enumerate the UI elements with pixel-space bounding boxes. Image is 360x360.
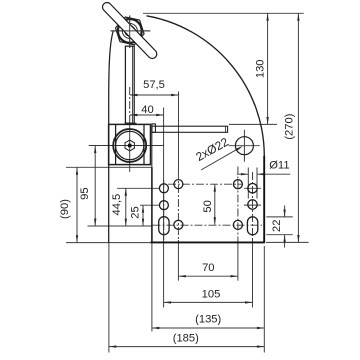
svg-text:130: 130	[254, 59, 266, 78]
dim (185) line	[109, 346, 264, 348]
dim 130 line	[267, 13, 269, 124]
arrowheads 50	[214, 184, 216, 191]
arrowheads (270)	[297, 13, 299, 20]
arrowheads 40	[130, 114, 137, 116]
svg-text:50: 50	[202, 200, 214, 212]
lever arm	[125, 46, 134, 123]
pivot block outline	[109, 124, 151, 164]
dim 105 line	[164, 301, 253, 303]
centreline col G-J	[252, 172, 254, 240]
hub outer circle	[118, 19, 142, 43]
pivot horizontal centreline	[89, 145, 164, 147]
arrowhead leader 2xO22	[236, 146, 243, 151]
arrowheads O11 outside	[241, 173, 248, 175]
flange bottom thin edge / (90) bottom tick	[66, 242, 151, 244]
dim O11 ext lines	[248, 168, 257, 199]
slot J	[247, 217, 257, 235]
hub centre ring	[125, 27, 134, 36]
arrowheads 44,5	[125, 188, 127, 195]
dim 22 ticks	[266, 217, 293, 235]
svg-text:95: 95	[79, 187, 91, 199]
pivot centre square	[128, 144, 132, 148]
pivot block inner jaw lines	[116, 124, 144, 164]
plate left edge upper segment	[151, 132, 153, 167]
extension line x=151.9 lower	[151, 243, 153, 332]
leader 2xO22	[201, 147, 241, 170]
pivot vertical centreline solid part	[129, 117, 131, 172]
hole O22	[235, 137, 253, 155]
hole B	[174, 180, 183, 189]
dim 57,5 line	[130, 94, 179, 96]
plate right edge	[263, 156, 265, 243]
lever rod body	[107, 7, 152, 54]
hub middle circle	[122, 23, 137, 38]
lever arm foot	[125, 123, 136, 124]
hole O22 crosshair	[229, 130, 260, 162]
extension line x=163.6 full	[163, 108, 165, 308]
svg-text:(135): (135)	[195, 314, 221, 326]
lever rod outline	[107, 7, 152, 54]
hole F	[233, 180, 242, 189]
hole E	[174, 220, 183, 229]
hole H	[248, 200, 257, 209]
bottom-right extension of base line	[266, 241, 309, 243]
hub knob lobed outline	[116, 17, 145, 45]
svg-text:Ø11: Ø11	[269, 159, 289, 171]
extension line x=237.9 lower	[237, 240, 239, 281]
lever arm inner line	[131, 46, 133, 123]
dim 25 top tick	[140, 204, 160, 206]
pivot hexagon	[125, 140, 134, 151]
dim 70 line	[178, 275, 238, 277]
dim (90) top tick	[66, 166, 152, 168]
arrowheads (135)	[152, 327, 159, 329]
arrowheads 22 outside	[283, 210, 285, 217]
dim (90) line	[76, 167, 78, 242]
dim 44,5 top tick	[117, 187, 160, 189]
svg-text:105: 105	[202, 289, 221, 301]
arrowheads (90)	[76, 167, 78, 174]
common bottom reference tick y=226	[88, 225, 152, 227]
horizontal arm plate end line	[225, 126, 227, 132]
lever sweep arc	[147, 16, 265, 156]
extension line x=252.5 lower	[252, 240, 254, 308]
dim 40 line	[130, 114, 164, 116]
svg-text:40: 40	[141, 104, 153, 116]
hole C	[159, 201, 168, 210]
centreline row slots	[153, 224, 263, 226]
pivot ring inner	[116, 131, 144, 159]
centreline row B-F	[168, 183, 243, 185]
hole I	[233, 220, 242, 229]
arrowheads 95	[94, 146, 96, 153]
left flange edge with curve to hub	[109, 31, 114, 243]
slot D	[159, 217, 169, 235]
centreline col B-E	[177, 171, 179, 240]
dim (270) line	[297, 13, 299, 242]
arrowheads 70	[178, 275, 185, 277]
svg-text:2xØ22: 2xØ22	[193, 135, 231, 164]
extension line x=108.9 lower	[108, 243, 110, 353]
svg-text:(90): (90)	[59, 199, 71, 219]
arrowheads 25	[142, 205, 144, 212]
arrowheads 57,5	[130, 94, 137, 96]
extension line x=264.3 right lower	[263, 246, 265, 353]
arrowheads 130	[266, 13, 268, 20]
svg-text:25: 25	[130, 206, 142, 218]
dim 44,5 line	[125, 188, 127, 226]
horizontal arm plate	[152, 126, 228, 132]
dim 22 line segments	[284, 206, 286, 248]
dim (135) line	[152, 327, 264, 329]
pivot ring outer	[113, 129, 146, 162]
svg-text:(270): (270)	[284, 113, 296, 139]
horizontal arm plate left tab	[152, 124, 156, 132]
centreline col A-D	[163, 180, 165, 240]
hub crosshair over rod	[111, 16, 151, 49]
right hole group crosshair stubs	[244, 188, 261, 205]
dim 95 line	[94, 146, 96, 226]
plate bottom edge	[151, 241, 265, 243]
svg-text:57,5: 57,5	[143, 79, 165, 91]
wire top extension line	[143, 12, 304, 14]
svg-text:22: 22	[271, 219, 283, 231]
hole G	[248, 184, 257, 193]
dim 130 bottom tick	[229, 123, 277, 125]
centreline col F-I	[237, 167, 239, 241]
hole A	[159, 184, 168, 193]
svg-text:44,5: 44,5	[111, 194, 123, 216]
extension line x=178.4 lower	[177, 240, 179, 281]
arm vertical centreline	[129, 87, 131, 117]
plate left edge	[151, 167, 153, 242]
svg-text:(185): (185)	[173, 332, 199, 344]
dim O11 line	[237, 173, 290, 175]
svg-text:70: 70	[202, 262, 214, 274]
arrowheads 105	[164, 301, 171, 303]
arrowheads (185)	[109, 345, 116, 347]
extension line x=178.5 upper	[178, 92, 180, 172]
dim 50 line	[214, 184, 216, 224]
hub crosshair	[111, 16, 151, 49]
dim 25 line	[142, 205, 144, 226]
